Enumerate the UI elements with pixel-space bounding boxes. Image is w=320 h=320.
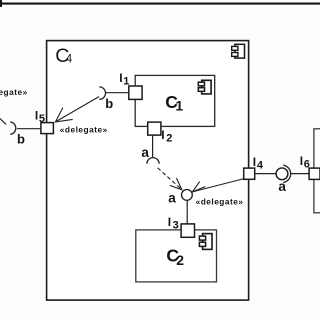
svg-text:«delegate»: «delegate» [60,125,108,135]
wire I5 to outer socket b [17,128,41,130]
svg-text:«delegate»: «delegate» [0,87,28,97]
component icon (C1, top-right) [198,80,211,94]
label I5 [35,109,45,126]
svg-text:2: 2 [176,252,184,268]
svg-text:I: I [168,215,171,229]
label I6 [300,154,310,170]
svg-text:1: 1 [175,98,183,114]
svg-text:I: I [253,155,256,169]
component C1 [135,75,215,126]
wire I2 down to socket a [152,135,154,157]
label I2 [161,128,172,144]
component box (right, partially cut) [314,129,320,213]
label I3 [168,215,179,231]
svg-text:5: 5 [39,113,45,125]
ball a (provided interface between I4 and I6) [276,168,288,180]
svg-text:1: 1 [123,76,129,88]
svg-text:4: 4 [257,159,264,171]
svg-text:b: b [105,96,113,111]
wire I1 to socket b [106,92,129,94]
wire socket arc to I6 [291,173,309,175]
svg-text:I: I [300,154,303,168]
label I4 [253,155,264,171]
port I6 (on right box left edge) [309,168,320,179]
wire I4 to ball a [255,173,277,175]
delegate arrow from socket b to port I5 [55,97,99,122]
svg-text:I: I [161,128,164,142]
socket arc around ball a [283,165,290,182]
port I1 (on C1 left edge) [129,86,142,99]
component icon (C4, top-right) [232,44,245,58]
dashed delegate arrow from socket a to node ball [158,168,182,190]
wire node ball down to I3 [186,200,188,224]
socket b (outside C4, at left image edge) [10,122,16,134]
component icon (C2, top-right) [199,234,212,250]
port I4 (on C4 right edge) [244,168,255,179]
svg-text:4: 4 [66,53,73,65]
svg-text:6: 6 [304,158,310,170]
top rule line [0,0,320,7]
svg-text:a: a [278,179,286,194]
port I5 (on C4 left edge) [41,123,54,134]
svg-text:I: I [35,109,38,123]
port I2 (on C1 bottom edge) [148,122,161,135]
wire stub from off-image to socket b [0,119,6,125]
svg-text:I: I [119,71,122,85]
component C4 (outer container) [47,41,249,301]
svg-text:a: a [141,145,149,160]
label C1 [165,92,183,114]
svg-text:2: 2 [166,133,172,145]
port I3 (on C2 top edge) [181,224,194,237]
component C2 [136,230,217,282]
label C2 [166,246,184,268]
svg-text:3: 3 [173,219,179,231]
svg-text:«delegate»: «delegate» [196,196,244,206]
label I1 [119,71,129,87]
solid delegate arrow from port I4 to node ball [192,179,244,192]
svg-text:b: b [17,132,25,147]
node ball (delegation node) [182,190,193,201]
socket b (required interface, near I1) [99,87,105,99]
socket a (below I2, opens downward) [147,158,159,164]
svg-text:a: a [168,191,176,206]
label C4 [55,45,72,67]
